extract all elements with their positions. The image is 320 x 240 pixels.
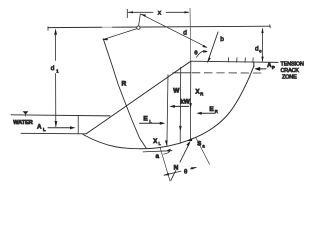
right radial extension line [196,138,210,165]
theta bottom dimension line [164,167,196,175]
svg-text:E: E [143,116,148,123]
kW arrowhead [169,105,174,108]
Ap arrowhead [254,67,260,71]
seismic force kW arrow [173,105,189,107]
right vertical plane below crest corner [189,61,191,139]
EL arrowhead [160,122,166,125]
dimension dc line [262,29,264,62]
svg-text:a: a [202,144,205,149]
ground surface right of crest [191,61,278,62]
svg-text:a: a [156,154,160,160]
svg-text:b: b [220,36,224,43]
svg-text:W: W [173,88,180,95]
svg-text:d: d [51,65,55,72]
left radial extension line [160,147,170,181]
force EL arrow [140,122,161,124]
N arrowhead [186,141,190,147]
failure arc [83,66,254,149]
svg-text:TENSION: TENSION [281,61,304,67]
force AL arrow [48,127,73,129]
force ER arrow [201,112,215,114]
label R [120,78,128,87]
XR down arrowhead on plane [189,103,192,108]
svg-text:θ: θ [194,50,197,56]
dimension d1 line [55,30,57,127]
theta bottom right arrowhead [191,167,197,169]
AL arrowhead [70,126,76,129]
XL down arrowhead at plane bottom [165,140,168,145]
angle theta arc (top) [196,51,206,57]
b line (line of action through ground point) [208,32,218,62]
svg-text:P: P [272,65,275,70]
water surface line [11,115,110,116]
svg-text:CRACK: CRACK [281,68,300,74]
radius R line [103,39,146,149]
b line bottom arrowhead [208,57,211,62]
d lower arrowhead [202,45,207,48]
tension crack hatch ticks [228,58,253,63]
left vertical plane [167,75,168,147]
slope face [86,61,191,134]
lower ground line at toe [21,132,86,135]
theta arc arrowhead [203,50,208,53]
dimension x left arrowhead [128,11,133,13]
svg-text:ZONE: ZONE [282,75,297,81]
svg-text:R: R [121,81,126,88]
dimension d line [141,14,207,47]
weight line vertical [179,67,182,143]
vertical extension line through crest corner [189,8,192,61]
dimension x line [128,11,189,13]
dc top arrowhead [261,28,263,33]
svg-text:L: L [43,127,46,132]
top line left end tick [47,27,49,31]
short link O to d-line [139,14,141,26]
top line right end tick [269,25,271,28]
svg-text:N: N [174,164,179,171]
svg-text:S: S [197,142,201,148]
svg-text:d: d [183,30,187,37]
dashed bottom of tension crack zone [173,72,191,74]
ER arrowhead [196,112,201,115]
svg-text:kW: kW [180,99,191,106]
d upper arrowhead [141,14,146,17]
top construction line through center O [48,26,270,27]
dc bottom arrowhead [261,57,263,62]
svg-text:c: c [259,49,261,54]
svg-text:R: R [215,109,218,114]
vertical face at toe front [77,115,79,133]
svg-text:X: X [195,90,199,96]
d1 bottom arrowhead [55,121,58,127]
theta bottom left arrowhead [163,173,169,175]
R leader arrowhead [102,38,108,40]
W down arrowhead [179,126,182,132]
dimension x right arrowhead [184,11,189,13]
normal force N line [171,143,190,181]
svg-text:1: 1 [56,68,59,73]
svg-text:X: X [153,139,157,145]
dashed continuation of crack zone bottom [192,72,261,74]
center O circle [137,26,140,29]
svg-text:E: E [209,106,214,113]
dimension x extension tick (left) [126,9,128,17]
alpha horizontal reference line [143,151,172,152]
water table symbol [23,111,29,114]
R leader arrow from O [104,29,137,40]
svg-text:R: R [200,92,203,97]
d1 top arrowhead [54,29,57,35]
label N [172,162,180,170]
alpha arc arrow [164,150,171,154]
svg-text:x: x [158,9,162,16]
svg-text:WATER: WATER [13,120,32,126]
svg-text:L: L [159,141,162,146]
svg-text:θ: θ [184,169,188,175]
tension crack face [253,62,255,67]
shear Sa arrowhead along arc [189,138,194,140]
force Ap arrow [259,68,267,70]
svg-text:A: A [37,125,42,131]
